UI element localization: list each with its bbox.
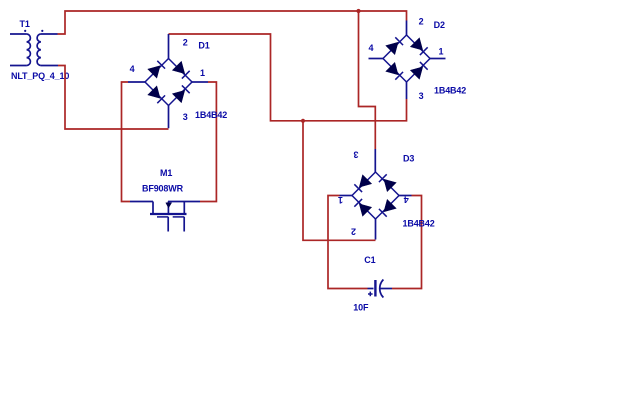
D1 pin 2 lead [168,34,170,59]
wire D1 pin 4 to M1 left [122,82,131,202]
svg-text:1B4B42: 1B4B42 [434,86,466,96]
bridge D1 [145,59,192,106]
svg-text:10F: 10F [353,303,369,313]
svg-text:BF908WR: BF908WR [142,184,184,194]
svg-text:3: 3 [183,112,188,122]
wire junction to D3 pin 3 [359,11,376,149]
svg-text:C1: C1 [364,255,375,265]
svg-text:3: 3 [353,150,358,160]
wire D1 pin 2 to D2 pin 3 [169,34,407,121]
wire D1 pin 1 to M1 right [200,82,216,202]
junction dot top rail [356,9,360,13]
M1 substrate arrow [166,202,172,214]
transformer T1 [10,34,58,66]
wire D3 pin 4 to C1 right [392,196,422,289]
svg-text:2: 2 [419,17,424,27]
svg-text:D1: D1 [198,40,209,50]
svg-text:2: 2 [183,38,188,48]
svg-text:T1: T1 [20,19,30,29]
svg-text:1: 1 [439,47,444,57]
bridge D3 (rotated 180) [352,172,399,219]
wire T1 bottom to D1 pin 3 [58,66,169,130]
svg-text:1: 1 [338,195,343,205]
D2 pin 3 lead [406,82,408,99]
wire junction to D3 pin 2 [303,121,376,241]
svg-text:4: 4 [130,64,135,74]
D3 pin 1 lead [340,195,353,197]
C1 plus sign [368,292,373,297]
svg-text:2: 2 [351,227,356,237]
D3 pin 4 lead [399,195,412,197]
T1 polarity dot left [24,30,26,32]
svg-text:1B4B42: 1B4B42 [195,110,227,120]
D3 pin 3 lead [374,149,376,172]
D2 pin 1 lead [430,58,446,60]
D2 pin 2 lead [406,21,408,36]
svg-text:1: 1 [200,68,205,78]
wire D3 pin 1 to C1 left [328,196,368,289]
svg-text:D3: D3 [403,154,414,164]
D1 pin 1 lead [192,81,208,83]
svg-text:4: 4 [369,43,374,53]
D1 pin 4 lead [128,81,145,83]
capacitor C1 [368,280,393,298]
D1 pin 3 lead [168,106,170,129]
T1 polarity dot right [41,30,43,32]
svg-text:4: 4 [404,195,409,205]
svg-text:3: 3 [419,91,424,101]
D3 pin 2 lead [375,219,377,240]
wire T1 top to D2 pin 2 (top rail) [58,11,407,34]
bridge D2 [383,35,430,82]
MOSFET M1 [130,202,200,232]
D2 pin 4 lead [369,58,384,60]
svg-text:M1: M1 [160,168,172,178]
junction dot middle rail [301,119,305,123]
svg-text:D2: D2 [434,20,445,30]
svg-text:NLT_PQ_4_10: NLT_PQ_4_10 [11,71,69,81]
svg-text:1B4B42: 1B4B42 [403,218,435,228]
